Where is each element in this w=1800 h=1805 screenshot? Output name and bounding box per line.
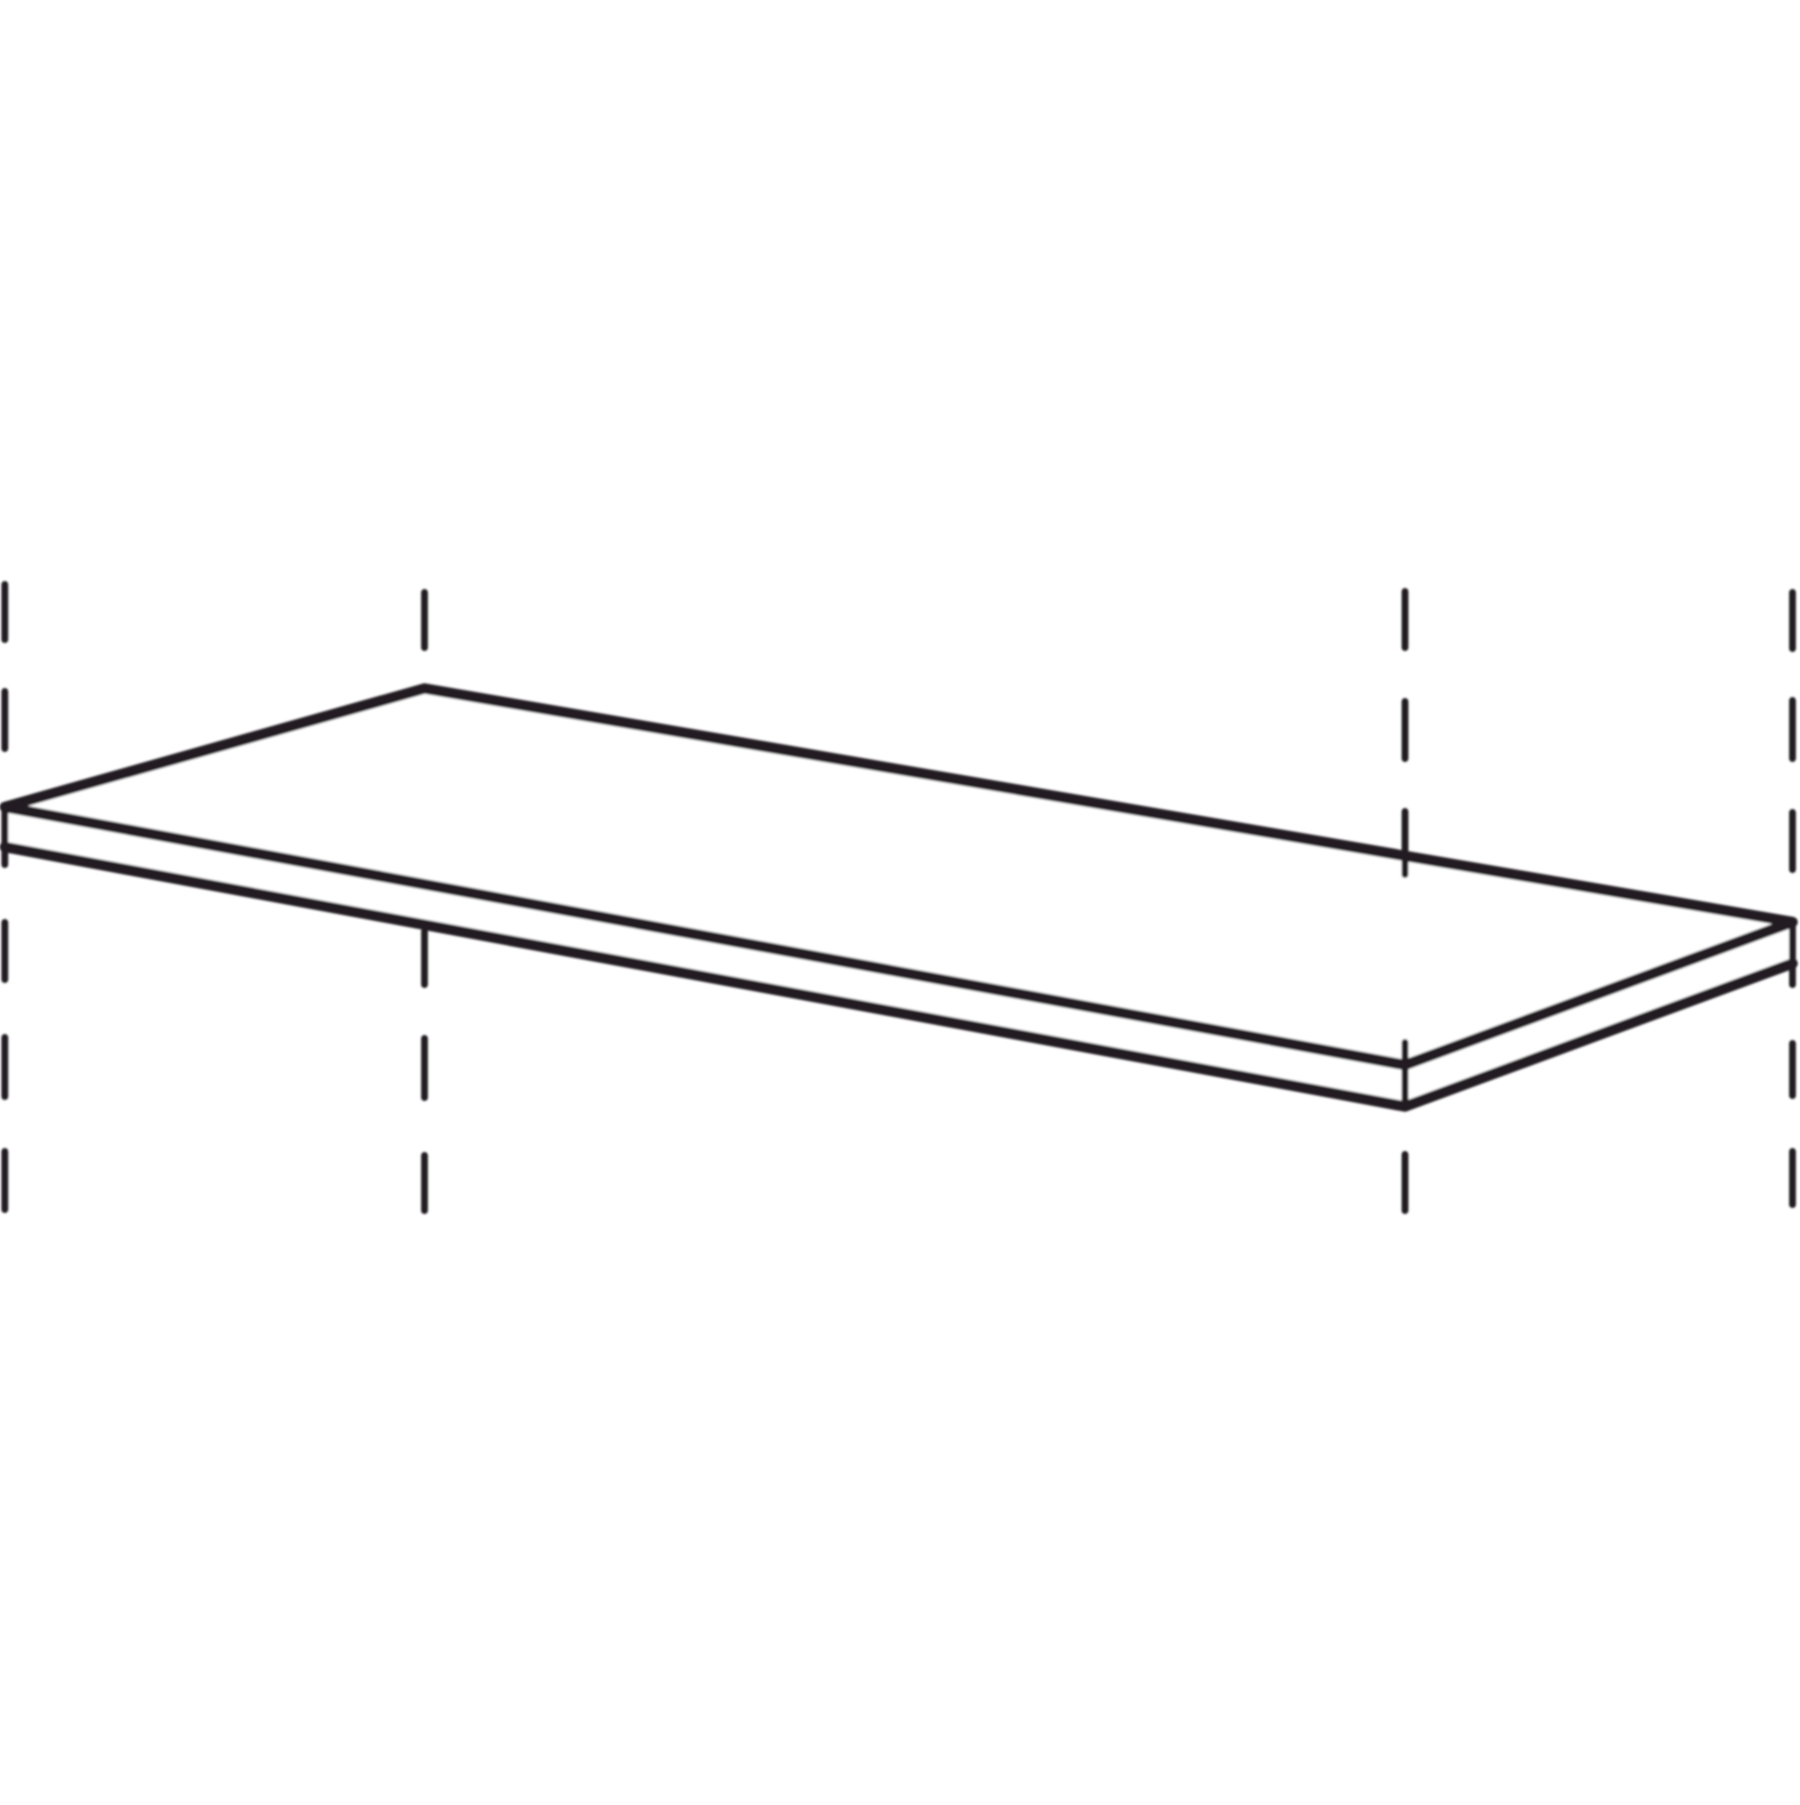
dashed guide line 2 (second wall pin line), upper dash bbox=[421, 592, 428, 647]
dashed guide line 1 (left wall pin line), upper dashes bbox=[1, 584, 8, 748]
dashed guide line 3, dash crossing the shelf top edge bbox=[1402, 811, 1409, 874]
left corner vertical edge with dash overlap bbox=[1, 809, 8, 864]
dashed guide line 4, lower dashes bbox=[1789, 1043, 1796, 1204]
shelf board silhouette (white fill) bbox=[5, 689, 1793, 1107]
dashed guide line 4 (right wall pin line), upper dashes bbox=[1789, 592, 1796, 869]
dashed guide line 3, lower dash bbox=[1402, 1154, 1409, 1210]
dashed guide line 2, lower dashes bbox=[421, 931, 428, 1210]
shelf bottom front edge bbox=[5, 847, 1793, 1107]
shelf top face outline bbox=[5, 689, 1793, 1066]
dashed guide line 3 (third wall pin line), upper dashes bbox=[1402, 591, 1409, 758]
right corner vertical edge with dash overlap bbox=[1789, 923, 1796, 984]
dashed guide line 1, lower dashes bbox=[1, 922, 8, 1209]
front corner vertical edge with dash overlap bbox=[1402, 1042, 1409, 1106]
